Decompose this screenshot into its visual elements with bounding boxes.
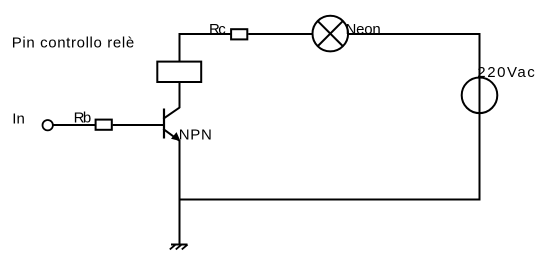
transistor Q1 collector stroke: [163, 107, 180, 118]
svg-text:Rc: Rc: [209, 21, 226, 38]
svg-text:Pin controllo relè: Pin controllo relè: [12, 35, 135, 52]
transistor Q1 emitter stroke: [163, 129, 179, 141]
wire: Rc to neon lamp: [248, 33, 313, 35]
relay K1 coil: [157, 62, 201, 82]
wire: Rb to base of Q1: [113, 124, 164, 126]
wire: emitter down to ground: [179, 140, 181, 245]
ground tick 2: [176, 245, 182, 250]
ground bar: [171, 244, 188, 246]
neon lamp cross stroke 1: [318, 21, 343, 46]
svg-text:In: In: [12, 110, 25, 127]
neon lamp cross stroke 2: [318, 21, 343, 46]
transistor Q1 emitter arrowhead: [172, 133, 180, 140]
transistor Q1 NPN base bar: [163, 109, 165, 139]
wire: relay coil top to top rail: [179, 33, 181, 62]
svg-text:Rb: Rb: [74, 109, 92, 126]
node In terminal: [43, 120, 53, 130]
wire: top rail to Rc: [179, 33, 231, 35]
ground tick 1: [170, 245, 176, 250]
resistor Rc: [231, 29, 247, 39]
wire: collector to relay coil: [179, 82, 181, 108]
AC source V1 220Vac: [462, 78, 498, 114]
wire: In terminal to Rb: [53, 124, 95, 126]
svg-text:NPN: NPN: [179, 126, 212, 143]
neon lamp body: [313, 16, 349, 52]
resistor Rb: [96, 120, 112, 130]
svg-text:Neon: Neon: [346, 21, 381, 38]
wire: neon lamp to right rail, down to source, bottom rail: [180, 34, 480, 200]
ground tick 3: [182, 245, 188, 250]
